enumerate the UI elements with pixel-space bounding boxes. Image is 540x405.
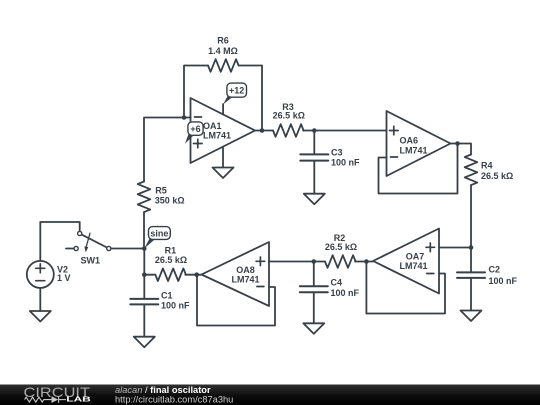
- svg-text:26.5 kΩ: 26.5 kΩ: [273, 110, 305, 120]
- op-amp OA6 body: [387, 111, 451, 176]
- svg-text:C4: C4: [331, 278, 343, 288]
- wire sine node down through R1 junction to C1: [143, 249, 145, 299]
- capacitor C1: [130, 299, 158, 305]
- resistor R1: [155, 268, 186, 281]
- wire C2 bottom: [470, 279, 472, 311]
- switch SW1 blade: [82, 235, 107, 248]
- wire R4 bottom to OA7 plus node and C2: [470, 185, 472, 271]
- svg-text:100 nF: 100 nF: [489, 276, 518, 286]
- svg-text:R1: R1: [165, 245, 177, 255]
- switch SW1 actuator: [86, 233, 90, 246]
- svg-text:LM741: LM741: [400, 146, 428, 156]
- voltage source V2 circle: [27, 261, 54, 288]
- svg-text:OA6: OA6: [400, 136, 419, 146]
- svg-text:SW1: SW1: [81, 255, 101, 265]
- OA6 minus marker: [391, 156, 398, 158]
- svg-text:sine: sine: [150, 228, 168, 238]
- wire C4 top: [313, 262, 315, 286]
- svg-text:LM741: LM741: [231, 275, 259, 285]
- wire R6 feedback loop left: [184, 66, 208, 118]
- svg-text:100 nF: 100 nF: [331, 158, 360, 168]
- svg-text:LM741: LM741: [399, 261, 427, 271]
- wire C4 bottom: [313, 293, 315, 323]
- wire switch to sine node: [111, 248, 144, 250]
- svg-text:LM741: LM741: [203, 131, 231, 141]
- ground below OA1: [213, 168, 234, 179]
- OA7 minus marker: [427, 273, 434, 275]
- switch SW1 terminal circles: [74, 231, 111, 250]
- OA1 plus marker: [194, 139, 203, 148]
- resistor R6: [208, 59, 239, 72]
- svg-text:OA7: OA7: [406, 252, 425, 262]
- node label bubble sine: [144, 227, 170, 249]
- wire C1 bottom: [143, 305, 145, 336]
- svg-text:OA1: OA1: [203, 121, 222, 131]
- op-amp OA1 body: [191, 98, 256, 163]
- op-amp OA8 body: [202, 242, 270, 306]
- resistor R5: [138, 182, 151, 213]
- svg-text:C3: C3: [331, 148, 343, 158]
- svg-text:350 kΩ: 350 kΩ: [155, 196, 185, 206]
- svg-text:26.5 kΩ: 26.5 kΩ: [325, 242, 357, 252]
- OA6 feedback wire: [379, 144, 458, 194]
- OA8 plus marker: [256, 257, 265, 266]
- svg-text:+6: +6: [190, 124, 200, 134]
- node label bubble +12: [223, 83, 246, 104]
- footer logo diode triangle: [52, 396, 59, 403]
- junction dots: [142, 115, 473, 277]
- wire C3 top: [313, 131, 315, 154]
- OA1 negative supply stub: [222, 148, 224, 168]
- ground below C2: [461, 311, 482, 322]
- svg-text:100 nF: 100 nF: [331, 288, 360, 298]
- svg-text:http://circuitlab.com/c87a3hu: http://circuitlab.com/c87a3hu: [115, 395, 233, 405]
- svg-text:C2: C2: [489, 265, 501, 275]
- ground below C3: [304, 194, 325, 205]
- ground below V2: [30, 311, 51, 322]
- wire C3 bottom: [313, 162, 315, 194]
- resistor R4: [465, 155, 478, 186]
- wire OA1 inverting input to R5 top: [144, 118, 191, 182]
- OA1 minus marker: [195, 116, 202, 118]
- switch SW1 left stub: [66, 248, 74, 250]
- capacitor C3: [300, 154, 328, 160]
- wire R3 to OA6 noninverting input: [303, 130, 387, 132]
- footer logo resistor-diode glyph: [25, 396, 66, 403]
- wire R5 bottom to sine node: [143, 212, 145, 248]
- svg-text:alacan / final oscilator: alacan / final oscilator: [115, 385, 211, 395]
- OA7 plus marker: [426, 243, 435, 252]
- svg-text:LAB: LAB: [66, 397, 91, 404]
- svg-text:+12: +12: [229, 85, 244, 95]
- OA1 positive supply stub: [222, 104, 224, 115]
- svg-text:OA8: OA8: [236, 265, 255, 275]
- OA8 minus marker: [257, 286, 264, 288]
- wire R2 left to OA8 plus: [269, 261, 325, 263]
- resistor R3: [273, 124, 304, 137]
- wire OA6 output to R4: [451, 144, 472, 155]
- ground below C4: [303, 323, 324, 334]
- node label bubble +6: [185, 122, 203, 144]
- svg-text:26.5 kΩ: 26.5 kΩ: [481, 171, 513, 181]
- V2 minus marker: [36, 280, 45, 282]
- OA8 feedback wire: [197, 275, 275, 326]
- footer bar: [0, 385, 540, 405]
- OA6 plus marker: [390, 126, 399, 135]
- svg-text:1 V: 1 V: [57, 273, 71, 283]
- svg-text:R5: R5: [155, 186, 167, 196]
- switch SW1 actuator arrowhead: [84, 246, 88, 252]
- wire R6 right to OA1 output: [239, 66, 262, 131]
- svg-text:R4: R4: [481, 161, 493, 171]
- svg-text:C1: C1: [161, 291, 173, 301]
- ground below C1: [134, 337, 155, 348]
- svg-text:100 nF: 100 nF: [161, 301, 190, 311]
- wire OA1 output to R3: [255, 130, 273, 132]
- svg-text:R6: R6: [217, 36, 229, 46]
- svg-text:26.5 kΩ: 26.5 kΩ: [155, 255, 187, 265]
- capacitor C2: [457, 272, 485, 278]
- wire OA8 output to R1: [185, 274, 201, 276]
- op-amp OA7 body: [373, 229, 439, 294]
- wire V2 bottom to ground: [39, 288, 41, 311]
- capacitor C4: [300, 286, 328, 292]
- resistor R2: [325, 255, 356, 268]
- OA7 feedback wire: [366, 262, 445, 314]
- V2 plus marker: [36, 264, 45, 273]
- wire OA7 output to R2: [355, 261, 373, 263]
- wire V2 top to switch: [40, 222, 79, 261]
- svg-text:1.4 MΩ: 1.4 MΩ: [208, 46, 238, 56]
- wire OA7 plus stub: [439, 247, 471, 249]
- wire R1 left lead: [144, 274, 155, 276]
